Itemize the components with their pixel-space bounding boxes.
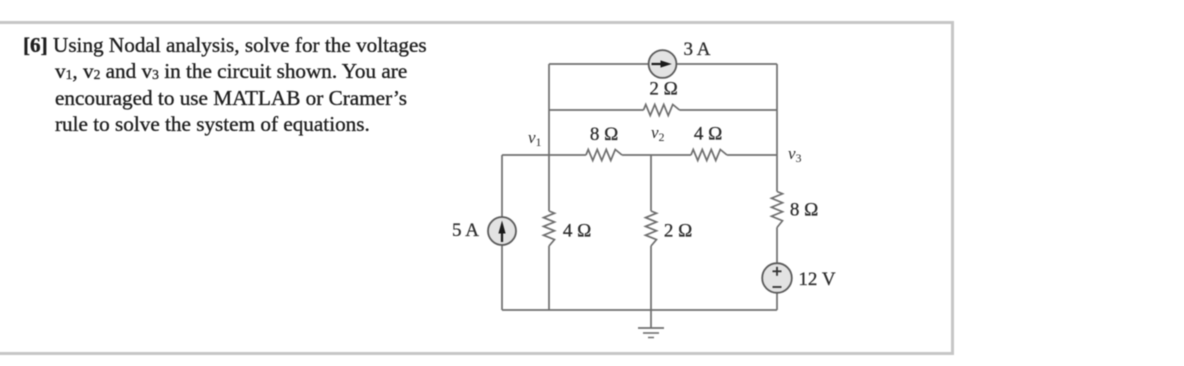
wire node row 4-ohm to node v3 (727, 154, 777, 156)
resistor 4-ohm vertical zigzag (544, 211, 555, 246)
wire top rail from node v1 column to 3A source (549, 63, 649, 65)
wire v1 column lower segment (548, 246, 550, 310)
wire node row between 8-ohm and 4-ohm through node v2 (622, 154, 691, 156)
svg-text:5 A: 5 A (452, 220, 479, 241)
wire v3 column middle segment (776, 228, 778, 264)
voltage source 12 V (762, 263, 792, 293)
wire left column above 5A source (501, 155, 503, 217)
ground stub (650, 310, 652, 328)
wire v2 column upper segment (650, 155, 652, 211)
wire v3 column upper segment (776, 64, 778, 192)
resistor 4-ohm horizontal zigzag (691, 150, 727, 161)
resistor 2-ohm horizontal zigzag (644, 105, 680, 116)
problem statement text (23, 33, 515, 137)
svg-text:2 Ω: 2 Ω (664, 220, 692, 241)
wire top rail from 3A source to node v3 column (676, 63, 777, 65)
svg-text:4 Ω: 4 Ω (563, 220, 591, 241)
ground symbol (638, 328, 664, 338)
svg-text:8 Ω: 8 Ω (790, 200, 818, 221)
wire v1 column upper segment (548, 64, 550, 211)
svg-text:4 Ω: 4 Ω (694, 124, 722, 145)
resistor 2-ohm vertical zigzag (646, 211, 657, 246)
wire 2-ohm rail left segment (549, 109, 644, 111)
outer panel frame (0, 21, 954, 355)
resistor 8-ohm vertical zigzag (772, 192, 783, 228)
svg-text:v2: v2 (651, 123, 665, 144)
svg-text:12 V: 12 V (798, 269, 835, 290)
current source 5 A (488, 217, 516, 245)
svg-text:3 A: 3 A (684, 39, 711, 60)
wire 2-ohm rail right segment (680, 109, 778, 111)
wire left column below 5A source (501, 245, 503, 310)
wire node row 5A branch to node v1 and 8-ohm (502, 154, 586, 156)
svg-text:v3: v3 (788, 144, 802, 165)
svg-text:8 Ω: 8 Ω (590, 124, 618, 145)
wire bottom rail (502, 309, 777, 311)
current source 3 A (649, 50, 677, 78)
resistor 8-ohm horizontal zigzag (586, 150, 622, 161)
wire v2 column lower segment (650, 246, 652, 310)
wire v3 column lower segment (776, 293, 778, 310)
svg-text:v1: v1 (528, 128, 542, 149)
svg-text:2 Ω: 2 Ω (649, 79, 677, 100)
